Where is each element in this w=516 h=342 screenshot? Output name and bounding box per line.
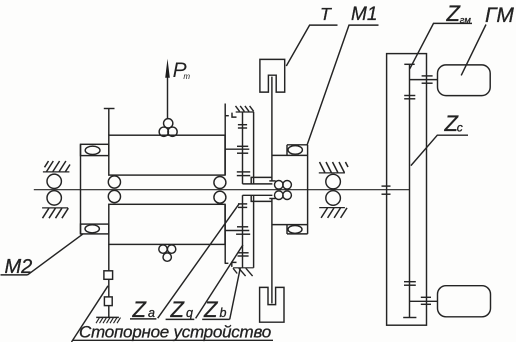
gear bars on main axis at case: [382, 186, 391, 194]
force arrow Pт: [165, 59, 170, 119]
label Стопорное устройство with leader: [72, 286, 274, 342]
hydromotor ГМ top: [438, 65, 491, 96]
label Zc with leader: [411, 111, 468, 166]
hydromotor bottom: [438, 286, 491, 317]
brake band shaft lower: [271, 199, 273, 304]
gearbox case right unit: [387, 54, 427, 326]
left housing wall: [80, 144, 82, 234]
gear bars lower pair1: [238, 204, 247, 208]
brake T top bracket: [260, 59, 285, 92]
coupling line lower: [225, 230, 249, 232]
coupling bar lower: [237, 226, 248, 228]
label M1 with leader: [307, 4, 379, 145]
coupling bar upper: [237, 145, 248, 147]
label T with leader: [286, 4, 337, 66]
drum left wall: [253, 112, 255, 268]
sleeve fork upper: [243, 177, 273, 184]
shaft to upper hydromotor: [410, 79, 438, 81]
clutch shaft Za column: [242, 112, 244, 268]
bearing M2 upper box: [81, 144, 109, 155]
coupling bar lower second: [236, 233, 250, 235]
gear Za bars upper pair1: [238, 125, 247, 128]
svg-text:Стопорное устройство: Стопорное устройство: [79, 322, 271, 341]
sun mesh circles right: [214, 177, 226, 204]
svg-text:Z: Z: [203, 297, 219, 322]
bearing M2 lower box: [81, 224, 109, 234]
drum bottom hatching: [233, 268, 254, 276]
svg-text:a: a: [148, 306, 155, 320]
drum right wall: [307, 145, 309, 234]
drum bottom step notch: [225, 262, 237, 267]
svg-text:с: с: [457, 121, 463, 135]
label M2 with leader: [1, 234, 84, 278]
drum top step notch: [225, 113, 236, 118]
brake bottom bracket: [260, 287, 284, 322]
svg-text:b: b: [220, 306, 227, 320]
brake band shaft upper: [271, 77, 273, 181]
gear block upper rectangle: [109, 135, 225, 175]
label Zq with leader: [166, 245, 243, 322]
sleeve fork lower: [243, 195, 273, 201]
sun mesh circles left: [108, 176, 120, 203]
label Za with leader: [130, 203, 239, 322]
gear block lower rectangle: [109, 204, 225, 244]
gear Zгм pair on vertical shaft: [404, 96, 415, 99]
planet gear cluster bottom: [159, 245, 176, 261]
carrier fork lines: [269, 181, 275, 199]
label Pт: [173, 59, 191, 82]
svg-text:q: q: [186, 306, 193, 320]
gear bars at case wall top: [422, 76, 433, 83]
svg-text:M1: M1: [351, 4, 377, 25]
svg-text:Z: Z: [170, 297, 186, 322]
coupling bar upper second: [237, 152, 248, 154]
locking device stem and squares: [104, 244, 113, 317]
ring gear drum left wall upper: [224, 104, 226, 176]
ground symbol: [96, 317, 121, 323]
planet gear cluster top: [159, 119, 177, 137]
left support hatching bottom: [42, 208, 68, 218]
coupling line upper: [225, 148, 249, 150]
bearing rollers left support: [47, 174, 61, 205]
label Zb with leader: [202, 268, 240, 322]
shaft to lower hydromotor: [409, 300, 437, 302]
sun pinion four circle cluster: [275, 181, 292, 200]
drum top hatching: [236, 106, 254, 112]
label ГМ with leader: [461, 4, 514, 75]
gear bars upper pair2: [237, 172, 250, 176]
input shaft top with end cap: [104, 109, 115, 136]
right support hatching bottom: [319, 208, 347, 218]
svg-text:T: T: [320, 4, 332, 24]
vertical shaft Zc: [403, 64, 416, 317]
right support hatching top: [319, 162, 348, 173]
label Zгм with leader: [410, 1, 472, 69]
ring gear drum left wall lower: [224, 204, 226, 263]
main shaft centerline: [34, 189, 410, 191]
gear bars at case wall bottom: [421, 297, 431, 304]
svg-text:гм: гм: [460, 15, 472, 26]
left support hatching top: [43, 161, 70, 172]
bearing box bottom of drum: [272, 225, 308, 234]
gear bars lower pair2: [238, 253, 249, 256]
svg-text:т: т: [183, 72, 190, 81]
svg-text:ГМ: ГМ: [485, 4, 514, 27]
gear pair lower on vertical shaft: [404, 282, 416, 286]
bearing rollers right support: [326, 174, 341, 205]
bearing M1 box top of drum: [272, 145, 308, 156]
